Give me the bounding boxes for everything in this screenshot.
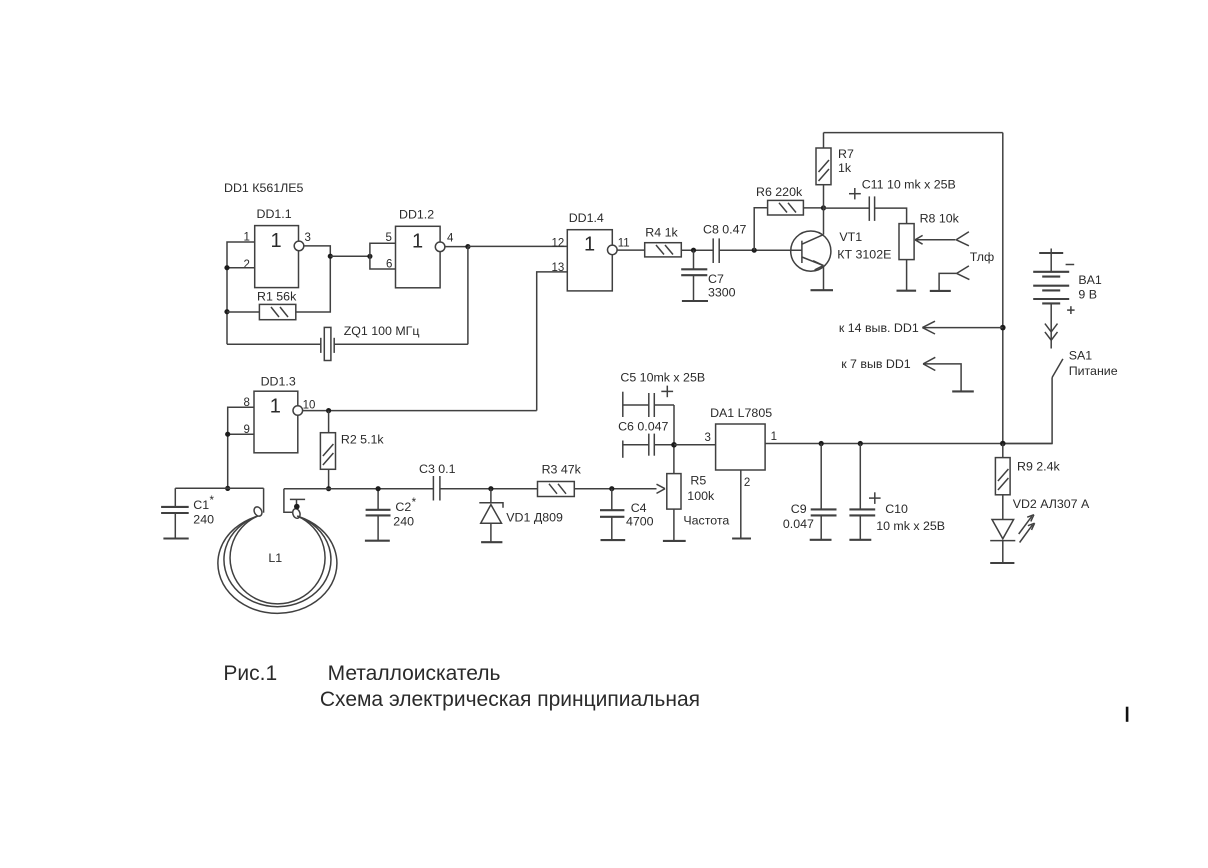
svg-text:Металлоискатель: Металлоискатель — [328, 662, 501, 685]
node dot R2 bus — [326, 486, 331, 491]
wire R1 left — [227, 311, 259, 313]
wire coil left drop — [263, 488, 265, 513]
svg-text:C6 0.047: C6 0.047 — [618, 420, 668, 434]
zener diode VD1 D809 — [479, 489, 563, 543]
svg-text:DD1.3: DD1.3 — [261, 375, 296, 389]
ground bar C10 — [849, 539, 871, 541]
node dot C4 — [609, 486, 614, 491]
capacitor C6 — [618, 420, 674, 458]
wire C5 corner to node — [673, 405, 675, 445]
ground phones — [930, 290, 951, 292]
wire pin2 stub — [227, 267, 255, 269]
wire k7 arrow to ground — [923, 357, 961, 391]
capacitor C5 — [620, 371, 705, 418]
wire k14 arrow — [922, 321, 1002, 334]
svg-text:C5 10mk x 25В: C5 10mk x 25В — [620, 371, 705, 385]
coil L1 — [218, 505, 337, 613]
wire pin1 stub — [227, 242, 255, 344]
svg-text:DD1.1: DD1.1 — [257, 207, 292, 221]
wire pin 13 — [537, 272, 568, 411]
ground emitter — [811, 289, 834, 291]
svg-text:12: 12 — [552, 237, 565, 249]
ground k7 — [952, 390, 974, 392]
svg-text:R5: R5 — [690, 474, 706, 488]
wire R2 bottom — [328, 469, 330, 488]
svg-text:*: * — [210, 495, 215, 507]
node dot collector — [821, 205, 826, 210]
coil tap bar — [290, 499, 305, 509]
wire left bus — [175, 487, 263, 489]
ground R8 — [897, 290, 917, 292]
svg-text:3: 3 — [705, 432, 711, 444]
node dot base branch — [752, 248, 757, 253]
node dot DA1 in — [671, 442, 677, 448]
wire C8 to base node — [719, 249, 802, 251]
svg-text:240: 240 — [193, 513, 214, 527]
wire DD1.1 out to DD1.2 in — [330, 255, 370, 257]
capacitor C8 — [703, 223, 747, 264]
ground bar C1 — [163, 537, 188, 539]
regulator DA1 L7805 — [710, 406, 772, 470]
wire R2 top — [328, 411, 330, 433]
wire top rail — [824, 132, 1003, 134]
wire switch down to bus — [1003, 378, 1052, 444]
svg-text:2: 2 — [244, 259, 250, 271]
svg-text:R6 220k: R6 220k — [756, 185, 803, 199]
gate DD1.4 — [567, 211, 617, 291]
svg-text:1: 1 — [584, 234, 595, 256]
wire output bus — [765, 443, 1052, 445]
wire pin9 stub — [228, 433, 254, 435]
wire R9 top — [1002, 444, 1004, 458]
wire R5 top — [673, 445, 675, 474]
wire DD1.3 input bracket — [228, 407, 254, 488]
capacitor C9 — [783, 444, 837, 540]
svg-text:DA1 L7805: DA1 L7805 — [710, 406, 772, 420]
crystal ZQ1 100 MHz — [227, 324, 468, 361]
svg-text:1: 1 — [412, 231, 423, 253]
wire pin4 node to DD1.4 pin12 — [468, 245, 567, 247]
svg-text:C11 10 mk x 25В: C11 10 mk x 25В — [862, 178, 956, 192]
svg-text:VD2 АЛ307 А: VD2 АЛ307 А — [1013, 497, 1090, 511]
node dot k14 on rail — [1000, 325, 1006, 331]
svg-text:9 В: 9 В — [1078, 288, 1097, 302]
svg-text:3: 3 — [305, 232, 311, 244]
resistor R6 — [756, 185, 803, 215]
ground bar C2 — [365, 540, 390, 542]
svg-text:ZQ1 100 МГц: ZQ1 100 МГц — [344, 324, 420, 338]
capacitor C10 — [849, 444, 945, 540]
wire C3 to R3 — [440, 488, 538, 490]
svg-text:10 mk x 25В: 10 mk x 25В — [876, 519, 945, 533]
svg-text:C10: C10 — [885, 502, 908, 516]
capacitor C1 — [161, 488, 214, 538]
svg-text:Частота: Частота — [683, 514, 729, 528]
resistor R3 — [538, 463, 582, 497]
svg-text:VD1 Д809: VD1 Д809 — [506, 511, 563, 525]
ground bar under C7 — [682, 300, 708, 302]
svg-text:1k: 1k — [838, 161, 852, 175]
node dot pin2 — [224, 265, 229, 270]
node dot VD1 — [488, 486, 493, 491]
ground bar VD1 — [481, 541, 502, 543]
node dot rail bottom — [1000, 441, 1006, 447]
node dot C7 junction — [691, 248, 696, 253]
svg-text:R3 47k: R3 47k — [542, 463, 582, 477]
svg-text:4: 4 — [447, 233, 454, 245]
node dot C2 — [376, 486, 381, 491]
wire pin4 node down to crystal — [467, 247, 469, 345]
svg-text:R8 10k: R8 10k — [920, 212, 960, 226]
ground bar R5 — [663, 540, 686, 542]
gate DD1.2 — [396, 208, 445, 288]
wire R7 bottom — [823, 185, 825, 208]
node dot R1 left — [224, 309, 229, 314]
wire DD1.2 out — [445, 246, 468, 248]
svg-text:R7: R7 — [838, 147, 854, 161]
wire R6 to collector node — [803, 207, 823, 209]
svg-text:C1: C1 — [193, 498, 209, 512]
svg-text:C7: C7 — [708, 272, 724, 286]
svg-text:КТ 3102Е: КТ 3102Е — [837, 248, 891, 262]
ground bar C4 — [601, 539, 626, 541]
svg-text:4700: 4700 — [626, 515, 654, 529]
battery BA1 — [1033, 249, 1102, 315]
svg-text:BA1: BA1 — [1078, 273, 1102, 287]
svg-text:10: 10 — [303, 400, 316, 412]
svg-text:R2 5.1k: R2 5.1k — [341, 433, 385, 447]
resistor R9 — [995, 458, 1060, 495]
arrowhead into R5 — [657, 484, 666, 493]
wire R4 to C8 — [681, 249, 713, 251]
ground bar DA1 — [732, 537, 751, 539]
wire R5 bottom — [673, 509, 675, 541]
node dot DD1.1 out — [328, 254, 333, 259]
svg-text:100k: 100k — [687, 489, 715, 503]
capacitor C4 — [600, 489, 654, 540]
wire R7 top — [823, 133, 825, 148]
potentiometer R5 — [667, 474, 730, 528]
switch SA1 lever — [1052, 359, 1063, 378]
svg-text:C3 0.1: C3 0.1 — [419, 462, 456, 476]
svg-text:11: 11 — [618, 238, 630, 250]
wire R3 to R5 arrow — [574, 488, 656, 490]
svg-text:Рис.1: Рис.1 — [223, 662, 277, 685]
svg-text:L1: L1 — [268, 551, 282, 565]
svg-text:*: * — [412, 497, 417, 509]
svg-text:3300: 3300 — [708, 286, 736, 300]
wire DD1.2 input bracket — [370, 243, 396, 269]
svg-text:Тлф: Тлф — [970, 250, 994, 264]
svg-text:DD1.2: DD1.2 — [399, 208, 434, 222]
node dot pin9 — [225, 432, 230, 437]
connector fork bottom (phones) — [939, 266, 969, 291]
node dot DD1.2 in — [367, 254, 372, 259]
svg-text:VT1: VT1 — [839, 230, 862, 244]
wiper arrow into R8 — [915, 235, 956, 244]
svg-text:2: 2 — [744, 477, 750, 489]
svg-text:DD1.4: DD1.4 — [569, 211, 604, 225]
wire emitter down — [823, 266, 825, 291]
svg-text:1: 1 — [771, 431, 777, 443]
wire R9 to VD2 — [1002, 495, 1004, 520]
svg-text:C2: C2 — [395, 500, 411, 514]
wire battery to switch — [1050, 303, 1052, 348]
resistor R8 (potentiometer) — [899, 212, 960, 260]
node dot C10 — [858, 441, 863, 446]
svg-text:R4 1k: R4 1k — [645, 226, 678, 240]
svg-text:C8 0.47: C8 0.47 — [703, 223, 747, 237]
resistor R2 — [320, 433, 384, 470]
wire R1 right up to output — [296, 246, 331, 312]
svg-text:Питание: Питание — [1069, 364, 1118, 378]
capacitor C2 — [366, 489, 417, 541]
connector chevrons — [1045, 324, 1058, 341]
ground bar VD2 — [990, 562, 1014, 564]
wire R8 bottom — [906, 260, 908, 291]
capacitor C3 — [419, 462, 456, 501]
svg-text:5: 5 — [386, 232, 392, 244]
svg-text:1: 1 — [270, 396, 281, 418]
svg-text:0.047: 0.047 — [783, 517, 814, 531]
svg-text:к 14 выв. DD1: к 14 выв. DD1 — [839, 321, 919, 335]
ground bar C9 — [810, 539, 832, 541]
wire DD1.3 out — [303, 410, 537, 412]
node dot bus left — [225, 486, 230, 491]
svg-text:DD1 К561ЛЕ5: DD1 К561ЛЕ5 — [224, 181, 304, 195]
node dot C9 — [819, 441, 824, 446]
svg-text:Схема электрическая принципиал: Схема электрическая принципиальная — [320, 688, 700, 711]
wire right rail — [1002, 133, 1004, 444]
resistor R1 — [257, 290, 297, 320]
capacitor C11 — [824, 178, 956, 221]
transistor VT1 KT3102E — [791, 230, 892, 271]
gate DD1.3 — [254, 375, 303, 453]
wire node to DA1 pin3 — [674, 444, 716, 446]
svg-text:R9 2.4k: R9 2.4k — [1017, 460, 1061, 474]
wire C11 to R8 — [875, 208, 907, 224]
resistor R4 — [645, 226, 682, 257]
tick mark — [1126, 707, 1129, 722]
LED VD2 AL307A — [990, 497, 1090, 563]
wire right bus — [284, 488, 434, 490]
svg-text:C4: C4 — [631, 501, 647, 515]
svg-text:C9: C9 — [791, 502, 807, 516]
svg-text:к 7 выв DD1: к 7 выв DD1 — [841, 357, 911, 371]
wire DA1 pin2 to ground — [740, 470, 742, 539]
gate DD1.1 — [255, 207, 304, 288]
svg-text:1: 1 — [271, 230, 282, 252]
connector fork top (phones) — [956, 232, 969, 246]
svg-text:SA1: SA1 — [1069, 349, 1093, 363]
capacitor C7 — [681, 250, 735, 301]
svg-text:240: 240 — [393, 515, 414, 529]
resistor R7 — [816, 147, 854, 185]
wire pin 11 out — [617, 249, 645, 251]
node dot after pin4 — [465, 244, 470, 249]
svg-text:6: 6 — [386, 258, 392, 270]
wire R6 branch — [754, 208, 767, 251]
wire coil right drop — [284, 489, 293, 513]
svg-text:R1 56k: R1 56k — [257, 290, 297, 304]
wire collector — [823, 208, 825, 235]
node dot R2 top — [326, 408, 331, 413]
